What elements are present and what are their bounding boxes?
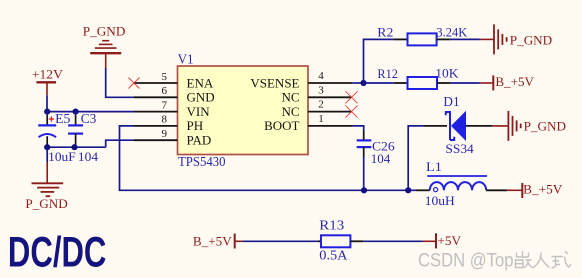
wire E5 rail down to ground xyxy=(46,147,48,162)
wire C26 to switch rail xyxy=(363,157,365,190)
svg-text:ENA: ENA xyxy=(187,75,214,90)
svg-text:D1: D1 xyxy=(443,95,459,110)
wire pin 1 BOOT to C26 xyxy=(352,126,364,131)
wire riser to R2 xyxy=(364,39,394,83)
diode D1 SS34 xyxy=(424,95,492,156)
svg-text:P_GND: P_GND xyxy=(83,23,126,38)
wire B_+5V to R13 xyxy=(242,240,317,242)
svg-text:0.5A: 0.5A xyxy=(319,248,347,263)
wire rail to pin 9 PAD xyxy=(106,140,134,147)
svg-text:R2: R2 xyxy=(377,25,393,40)
power port P_GND top xyxy=(83,23,126,68)
pin 1 BOOT xyxy=(264,113,352,133)
junction node FB xyxy=(360,80,366,86)
svg-text:P_GND: P_GND xyxy=(524,118,566,133)
svg-text:VIN: VIN xyxy=(187,104,211,119)
power port +5V xyxy=(422,233,461,249)
pin 9 PAD xyxy=(134,128,211,148)
capacitor C3 104 xyxy=(68,111,99,164)
wire +12V rail to pin 7 xyxy=(47,111,134,113)
no-connect X on pin 3 xyxy=(346,91,358,103)
wire D1 riser xyxy=(408,126,424,190)
watermark glyph 式 xyxy=(552,252,571,269)
svg-text:+5V: +5V xyxy=(437,233,461,248)
pin 4 VSENSE xyxy=(250,70,352,90)
svg-text:10K: 10K xyxy=(435,66,459,81)
svg-text:6: 6 xyxy=(162,85,168,97)
svg-text:CSDN @Top: CSDN @Top xyxy=(418,251,514,272)
power port B_+5V bottom left xyxy=(193,233,243,248)
wire pin 8 PH to switch rail xyxy=(120,126,417,190)
pin 7 VIN xyxy=(134,99,210,119)
no-connect X on pin 2 xyxy=(346,106,358,118)
wire R2 to ground xyxy=(450,38,480,40)
wire P_GND to pin 6 xyxy=(106,68,134,98)
wire junction to R12 xyxy=(364,82,394,84)
no-connect X on pin 5 xyxy=(129,78,140,89)
svg-text:5: 5 xyxy=(162,71,168,83)
svg-text:1: 1 xyxy=(318,113,324,125)
svg-text:8: 8 xyxy=(162,114,168,126)
watermark glyph 嵌 xyxy=(516,251,534,268)
svg-text:VSENSE: VSENSE xyxy=(250,75,299,90)
resistor R2 3.24K xyxy=(377,25,467,46)
svg-text:NC: NC xyxy=(281,104,299,119)
svg-text:3.24K: 3.24K xyxy=(436,25,467,40)
svg-text:DC/DC: DC/DC xyxy=(8,227,106,275)
pin 6 GND xyxy=(134,85,215,105)
svg-text:4: 4 xyxy=(318,70,324,82)
svg-text:3: 3 xyxy=(318,84,324,96)
junction on rail at C3 xyxy=(73,109,79,115)
svg-text:E5: E5 xyxy=(55,111,70,126)
junction on rail at E5 xyxy=(44,109,50,115)
svg-text:9: 9 xyxy=(162,128,168,140)
svg-text:PH: PH xyxy=(187,118,204,133)
junction D1 riser on rail xyxy=(405,187,411,193)
svg-text:B_+5V: B_+5V xyxy=(495,74,534,89)
wire pin 4 to junction xyxy=(352,82,363,84)
svg-text:L1: L1 xyxy=(426,159,442,174)
junction C26 on rail xyxy=(361,187,367,193)
svg-text:SS34: SS34 xyxy=(445,141,474,156)
svg-text:R13: R13 xyxy=(319,217,344,232)
svg-text:+12V: +12V xyxy=(32,67,64,82)
svg-text:B_+5V: B_+5V xyxy=(193,233,232,248)
svg-text:TPS5430: TPS5430 xyxy=(178,154,226,169)
pin 3 NC xyxy=(281,84,351,104)
wire +12V to VIN rail xyxy=(46,95,48,111)
ground P_GND right of D1 xyxy=(492,111,566,141)
ground P_GND right of R2 xyxy=(480,24,552,54)
svg-text:GND: GND xyxy=(187,90,215,105)
svg-text:PAD: PAD xyxy=(187,133,212,148)
pin 8 PH xyxy=(134,114,203,134)
junction cap rail at C3 xyxy=(71,144,77,150)
junction cap rail at E5 xyxy=(44,144,50,150)
resistor R13 0.5A xyxy=(318,217,364,262)
svg-text:7: 7 xyxy=(162,99,168,111)
svg-text:B_+5V: B_+5V xyxy=(523,182,563,197)
capacitor E5 10uF xyxy=(38,111,75,164)
power port B_+5V right of L1 xyxy=(507,182,563,199)
pin 5 ENA xyxy=(134,71,214,91)
svg-text:10uF: 10uF xyxy=(48,149,75,164)
watermark glyph 入 xyxy=(534,253,550,268)
inductor L1 10uH xyxy=(416,159,507,208)
svg-text:P_GND: P_GND xyxy=(510,32,552,47)
svg-text:2: 2 xyxy=(318,99,324,111)
ground P_GND bottom left xyxy=(25,162,67,211)
svg-text:C3: C3 xyxy=(81,111,97,126)
resistor R12 10K xyxy=(377,66,459,89)
svg-text:BOOT: BOOT xyxy=(264,118,299,133)
power port +12V xyxy=(32,67,64,96)
svg-text:10uH: 10uH xyxy=(425,193,455,208)
wire R12 to B_+5V xyxy=(450,82,480,84)
svg-text:NC: NC xyxy=(281,90,299,105)
wire cap bottom rail xyxy=(47,146,105,148)
svg-text:104: 104 xyxy=(371,151,391,166)
svg-text:104: 104 xyxy=(78,149,99,164)
svg-text:V1: V1 xyxy=(178,53,194,68)
svg-text:R12: R12 xyxy=(377,66,398,81)
power port B_+5V right of R12 xyxy=(480,74,535,90)
wire R13 to +5V xyxy=(363,240,422,242)
capacitor C26 104 xyxy=(357,131,395,166)
pin 2 NC xyxy=(281,99,351,119)
IC V1 TPS5430 body xyxy=(178,66,309,155)
svg-text:P_GND: P_GND xyxy=(25,196,67,211)
